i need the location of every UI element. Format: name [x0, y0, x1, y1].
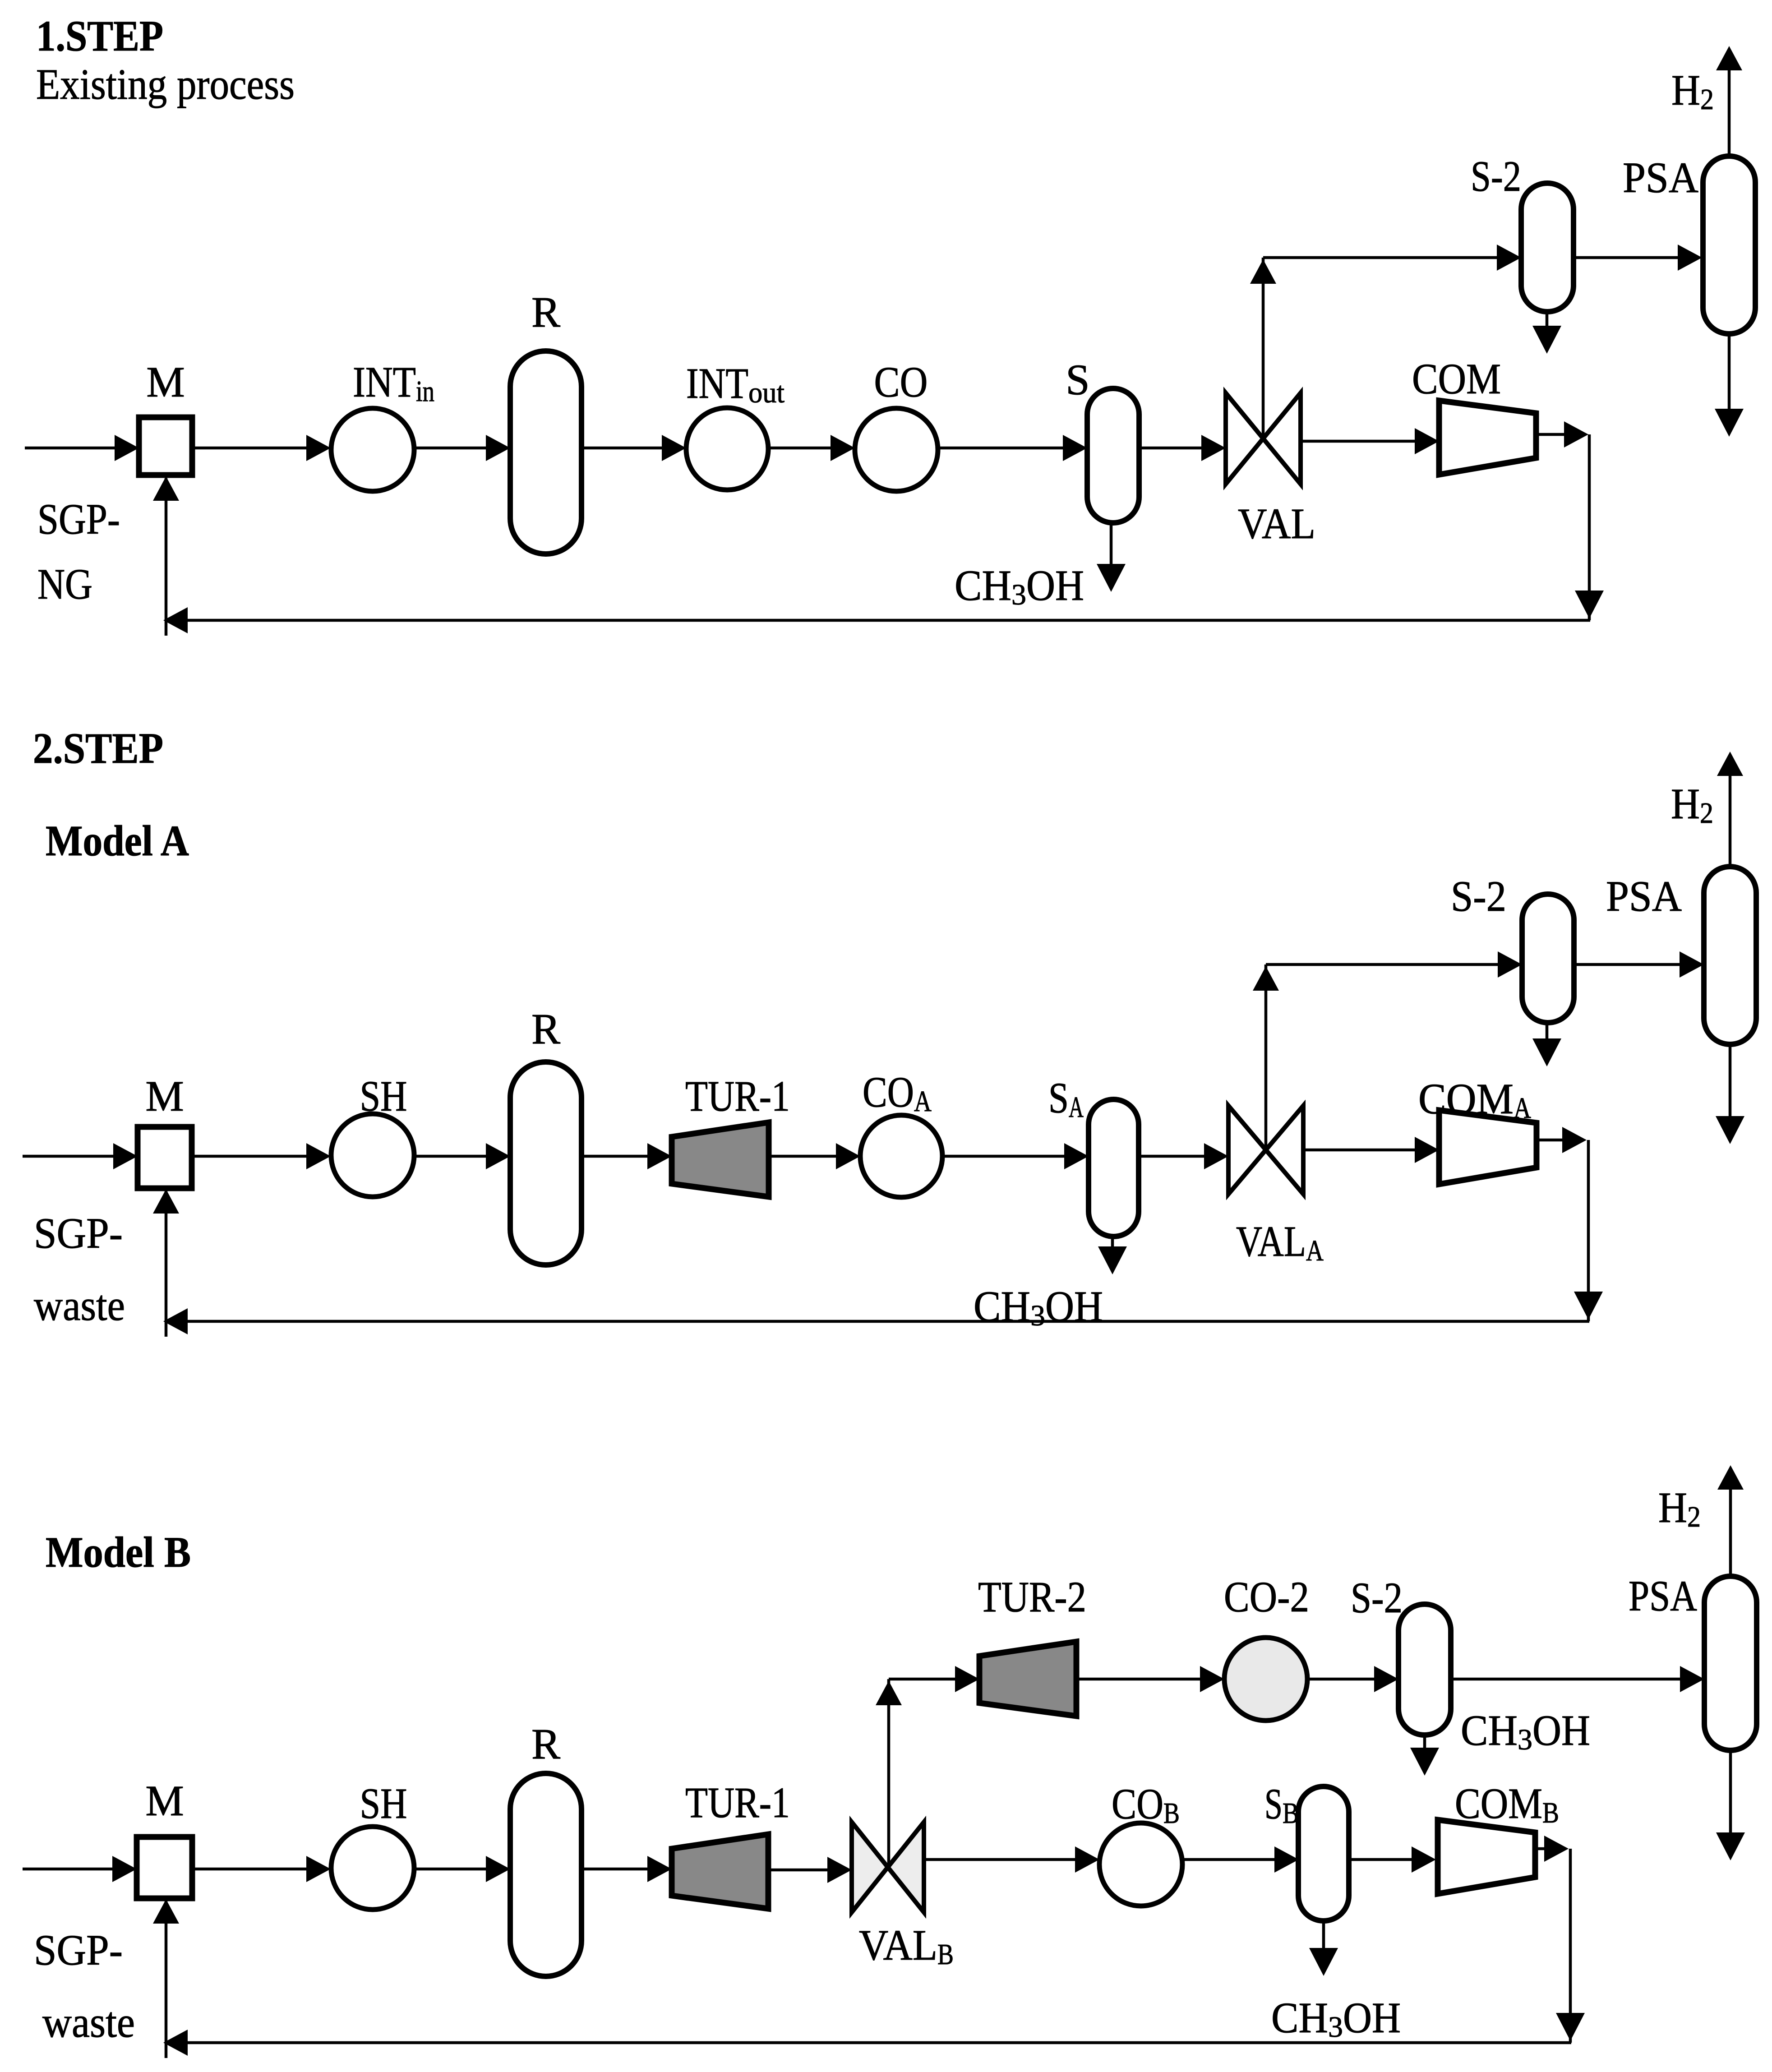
svg-text:CO-2: CO-2 [1224, 1573, 1309, 1621]
svg-text:M: M [145, 1777, 184, 1825]
svg-text:PSA: PSA [1606, 872, 1682, 920]
svg-text:NG: NG [37, 560, 92, 608]
svg-text:R: R [531, 1720, 560, 1768]
svg-text:S-2: S-2 [1451, 872, 1506, 920]
svg-text:SGP-: SGP- [34, 1209, 123, 1257]
svg-text:Model A: Model A [46, 817, 189, 865]
svg-text:SH: SH [360, 1779, 407, 1827]
svg-text:1.STEP: 1.STEP [36, 12, 163, 60]
svg-text:waste: waste [42, 1998, 135, 2046]
svg-text:waste: waste [34, 1281, 125, 1329]
svg-text:R: R [531, 1005, 560, 1053]
svg-text:SGP-: SGP- [34, 1926, 123, 1974]
svg-text:SH: SH [360, 1072, 407, 1120]
svg-text:S: S [1066, 355, 1089, 404]
svg-text:Model B: Model B [46, 1528, 191, 1576]
svg-text:TUR-1: TUR-1 [685, 1072, 790, 1120]
svg-text:M: M [145, 1072, 184, 1120]
svg-text:Existing process: Existing process [36, 60, 295, 108]
svg-text:PSA: PSA [1629, 1572, 1697, 1620]
svg-text:S-2: S-2 [1471, 152, 1521, 200]
svg-text:TUR-2: TUR-2 [978, 1573, 1086, 1621]
svg-text:PSA: PSA [1623, 153, 1698, 202]
svg-text:CO: CO [874, 358, 928, 406]
svg-text:TUR-1: TUR-1 [685, 1778, 790, 1827]
svg-text:R: R [531, 288, 560, 336]
svg-text:S-2: S-2 [1351, 1574, 1403, 1622]
svg-text:2.STEP: 2.STEP [33, 724, 163, 772]
svg-text:M: M [146, 358, 185, 406]
svg-text:COM: COM [1412, 355, 1501, 403]
svg-text:VAL: VAL [1238, 499, 1315, 548]
svg-text:SGP-: SGP- [37, 495, 120, 543]
